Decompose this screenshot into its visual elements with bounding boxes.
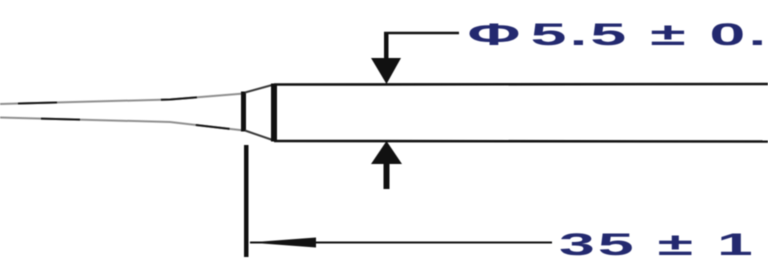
dimension arrow stem up xyxy=(384,163,390,189)
arrowhead left on dimension line xyxy=(249,238,316,248)
probe body left end bar xyxy=(271,84,277,142)
dimension arrow stem down xyxy=(384,32,389,60)
strain relief taper bottom edge xyxy=(245,131,274,141)
dimension line 35 horizontal xyxy=(250,242,552,244)
strain relief taper top edge xyxy=(245,85,274,93)
wire cable bottom edge dark segments xyxy=(0,118,244,131)
svg-text:35 ± 1: 35 ± 1 xyxy=(559,226,756,261)
extension line vertical at body start xyxy=(244,145,249,257)
wire cable top edge xyxy=(0,94,244,105)
arrowhead down at body top xyxy=(371,58,401,84)
probe body bottom edge xyxy=(274,140,768,143)
probe body top edge xyxy=(274,83,768,86)
dimension leader horizontal (top) xyxy=(384,32,459,35)
wire cable top edge dark segments xyxy=(0,94,244,105)
cable end cap bar xyxy=(241,92,246,132)
wire cable bottom edge xyxy=(0,118,244,131)
svg-text:Φ5.5 ± 0.2: Φ5.5 ± 0.2 xyxy=(468,16,768,51)
arrowhead up at body bottom xyxy=(371,141,402,164)
